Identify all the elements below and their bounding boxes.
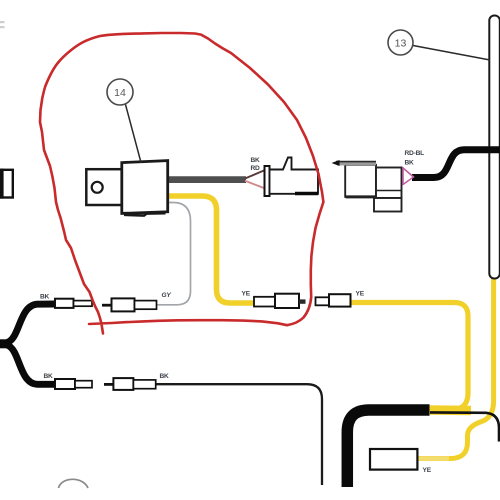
connector pair2 female (BK lower-left) xyxy=(55,379,92,389)
svg-text:BK: BK xyxy=(40,293,50,300)
fork wire RD (lower) xyxy=(245,181,265,189)
callout circle 14 xyxy=(107,79,133,105)
arrow terminal xyxy=(332,160,340,166)
svg-text:RD: RD xyxy=(251,165,261,172)
connector at left edge (partial) xyxy=(0,169,13,199)
svg-text:GY: GY xyxy=(162,292,172,299)
wire YE pale tail at box xyxy=(418,456,449,461)
wire YE B (right edge down to YE box) xyxy=(417,276,494,459)
red highlight loop xyxy=(40,33,323,334)
connector pair4 female (YE left) xyxy=(254,294,306,308)
svg-text:BK: BK xyxy=(160,373,170,380)
wire YE loop A (YE connector to lower junction) xyxy=(350,303,468,410)
svg-text:BK: BK xyxy=(44,373,54,380)
faint marks top-left xyxy=(0,21,5,28)
BK/RD plug xyxy=(265,158,319,197)
svg-text:RD-BL: RD-BL xyxy=(405,150,425,157)
YE box xyxy=(370,449,417,470)
leader line 14 xyxy=(126,105,142,163)
fork wire BK (upper) xyxy=(245,170,265,178)
component 13 panel (right edge) xyxy=(489,16,500,279)
svg-text:BK: BK xyxy=(405,159,415,166)
thin black wire to lower-right corner xyxy=(430,412,499,441)
wire GY (relay to connector, U-turn) xyxy=(155,203,191,305)
wire YE (relay loop down to YE connector) xyxy=(168,196,256,303)
Y harness upper branch xyxy=(7,304,55,343)
svg-text:BK: BK xyxy=(251,157,261,164)
RD-BL connector xyxy=(336,161,414,211)
leader line 13 xyxy=(413,46,490,61)
svg-text:YE: YE xyxy=(423,467,432,474)
thick black harness bottom-right xyxy=(347,410,429,487)
thin black wire from lower BK pair xyxy=(155,384,322,485)
Y harness lower branch xyxy=(7,345,55,384)
svg-text:14: 14 xyxy=(114,87,126,99)
thick yellow junction segment xyxy=(428,405,471,415)
bottom fade strip xyxy=(0,489,500,500)
connector pair4 male (YE right) xyxy=(316,294,351,306)
svg-text:YE: YE xyxy=(356,290,365,297)
svg-text:YE: YE xyxy=(242,290,251,297)
partial circle bottom-left xyxy=(59,479,89,488)
relay 14 xyxy=(86,161,167,216)
gray thick wire relay to BK/RD plug xyxy=(169,176,246,183)
callout circle 13 xyxy=(388,30,413,55)
svg-text:13: 13 xyxy=(395,38,407,50)
connector pair1 female (BK upper-left) xyxy=(55,299,92,308)
connector pair2 male (BK right) xyxy=(104,378,156,390)
thick black wire RD-BL to panel xyxy=(412,150,500,178)
connector pair1 male (GY side) xyxy=(102,298,157,311)
thick black Y harness stem xyxy=(0,339,11,348)
